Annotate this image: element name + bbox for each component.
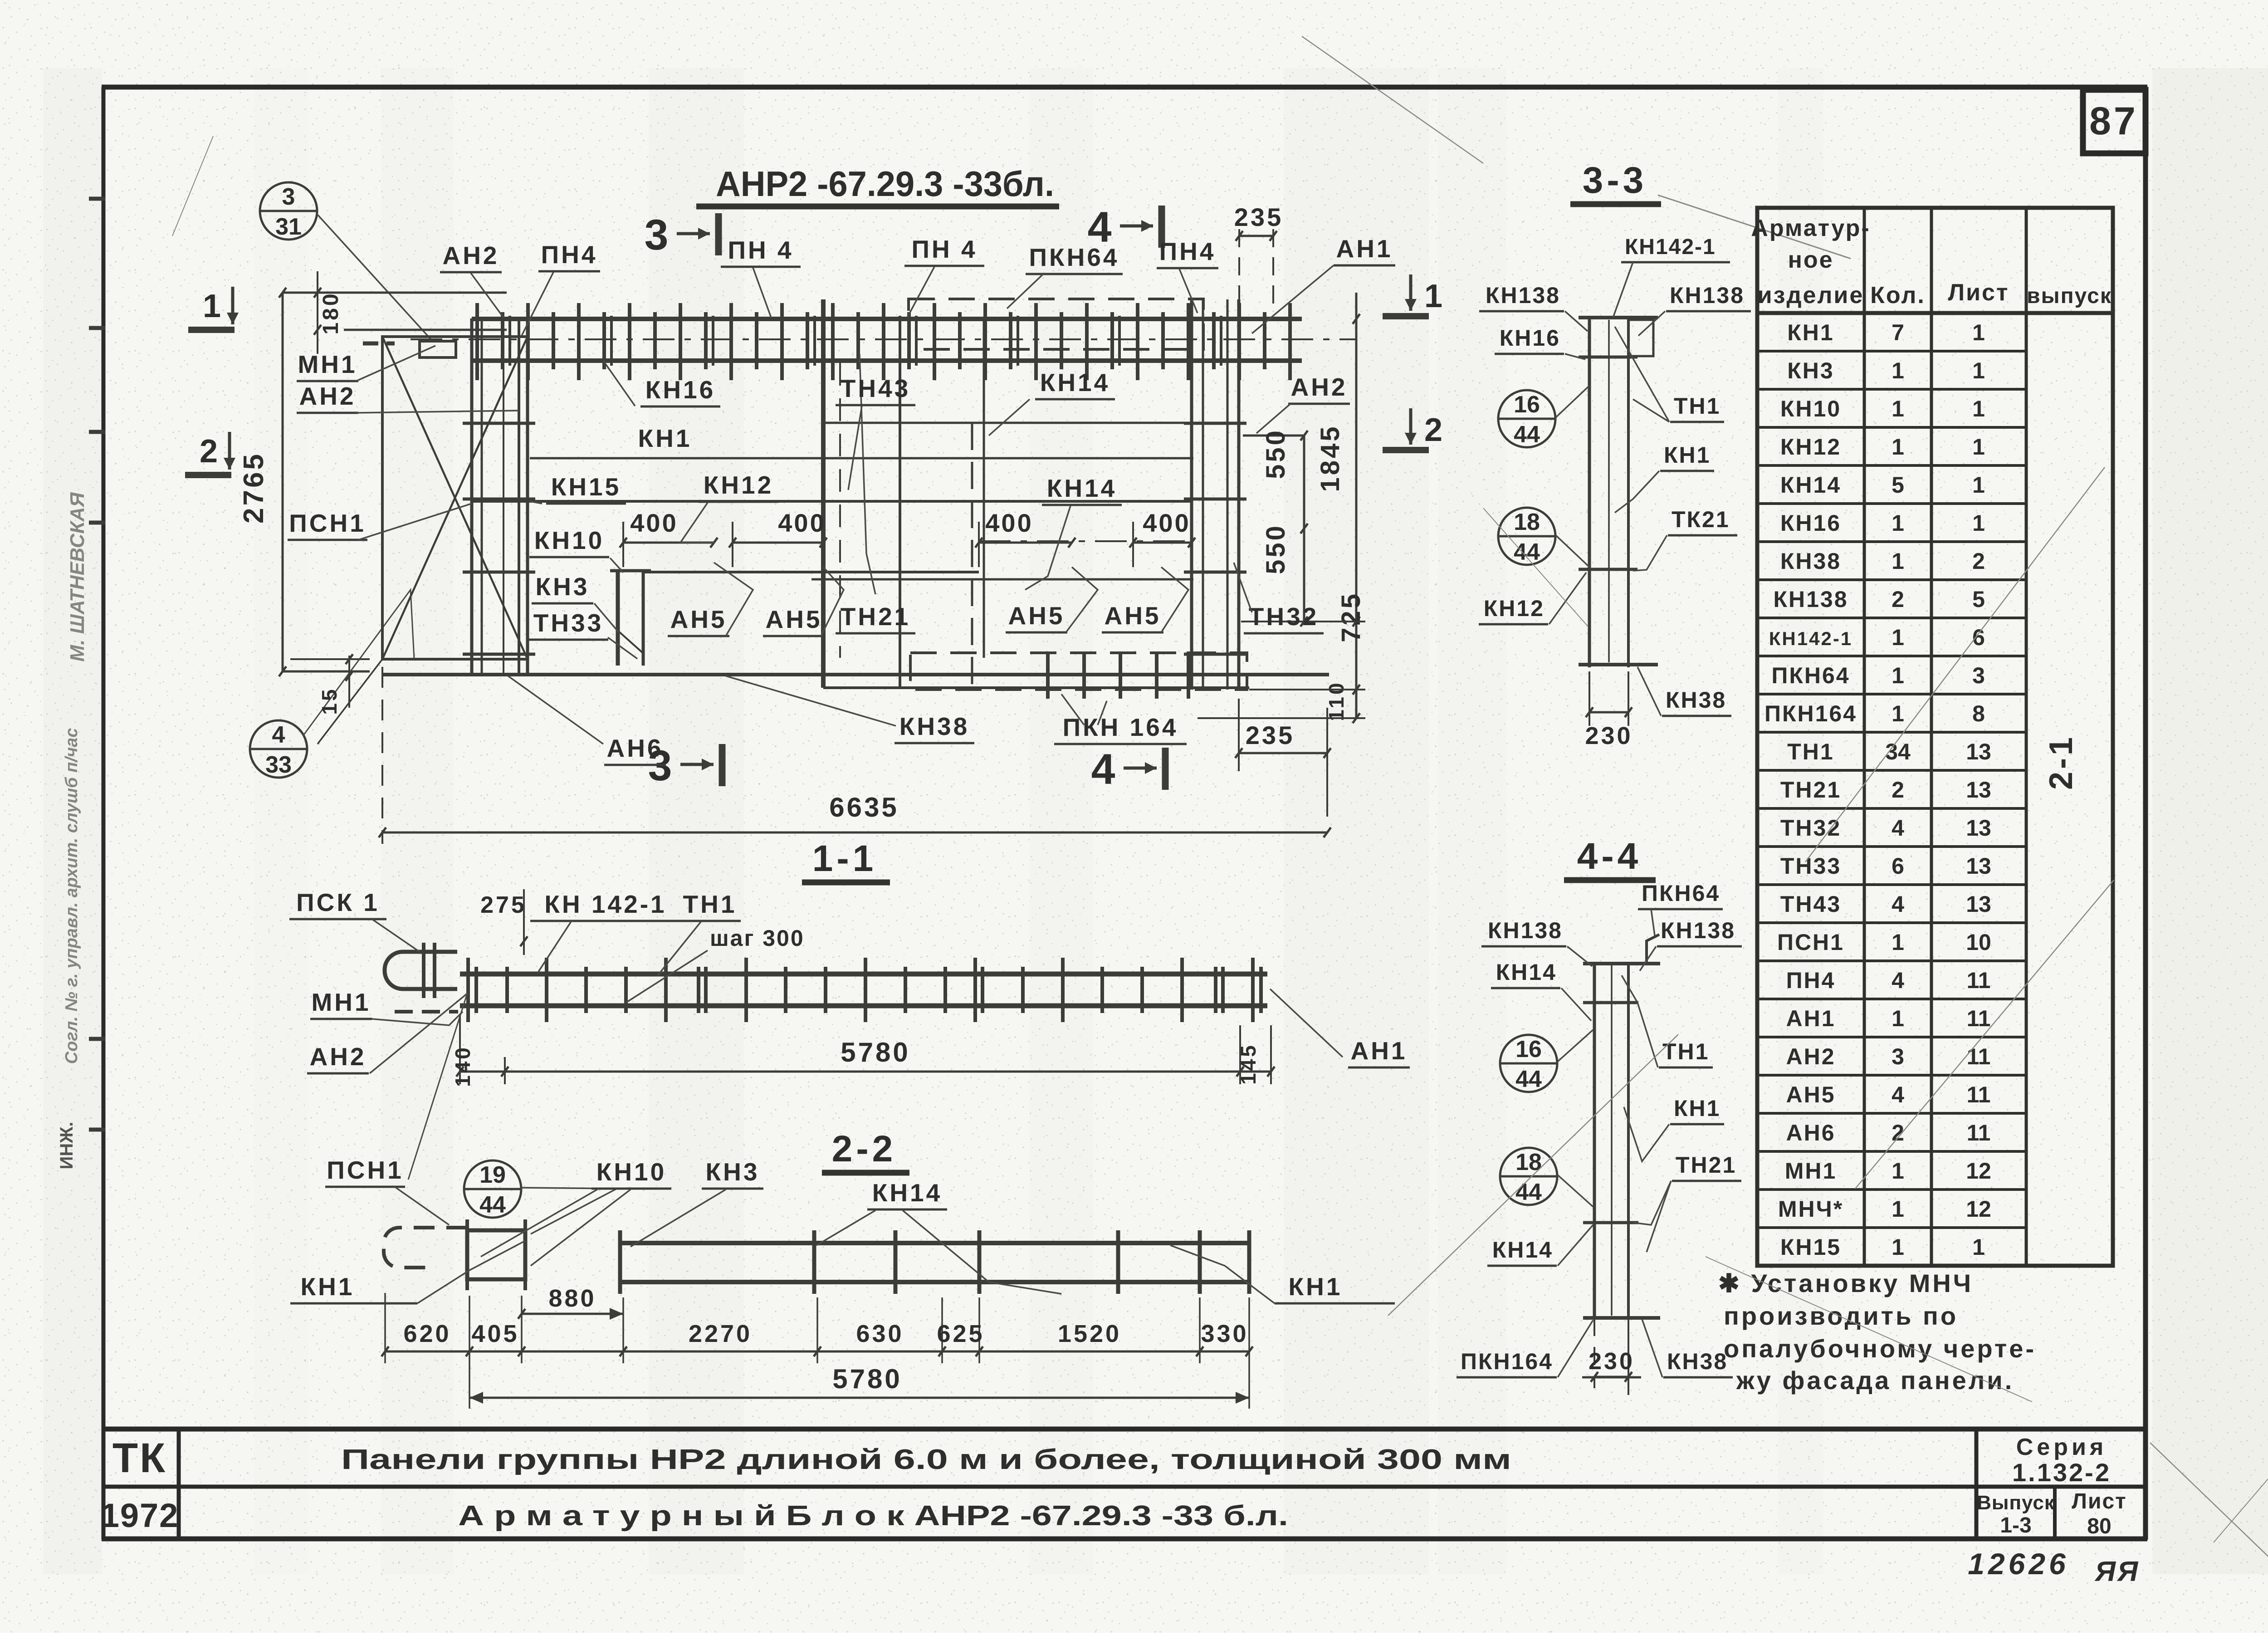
svg-text:87: 87: [2089, 99, 2138, 143]
dim 235 bot line: [1239, 752, 1327, 754]
dim 230 ext a: [1589, 671, 1590, 726]
svg-text:330: 330: [1201, 1320, 1248, 1347]
svg-text:2270: 2270: [689, 1320, 752, 1347]
leader АН2 1-1 b: [408, 994, 467, 1180]
dim 1845 vertical: [1355, 293, 1358, 718]
label dim 230 (4-4): [1582, 1348, 1641, 1377]
svg-text:13: 13: [1966, 815, 1991, 841]
label ТН32 right: [1244, 602, 1324, 633]
svg-text:1: 1: [1892, 1006, 1904, 1031]
label КН1 3-3: [1660, 442, 1714, 471]
КН1 underline L: [290, 1302, 417, 1305]
border fold tick: [89, 1037, 105, 1041]
label КН10 2-2: [591, 1158, 671, 1189]
left column cross tie: [463, 653, 535, 656]
section 3-3 title: [1570, 160, 1661, 204]
dim ext 2-2: [1248, 1297, 1250, 1363]
leader КН10: [610, 558, 623, 573]
svg-text:230: 230: [1589, 1348, 1635, 1375]
label dim 2270 (2-2): [689, 1320, 752, 1347]
svg-text:4: 4: [272, 722, 285, 748]
label АН2 1-1: [307, 1043, 369, 1073]
beam 2-2 bottom chord: [620, 1280, 1249, 1284]
scan band: [1030, 68, 1093, 1574]
dim 230 line (3-3): [1589, 711, 1628, 714]
svg-text:АН6: АН6: [1786, 1120, 1835, 1145]
leader ПКН64 4-4: [1651, 909, 1655, 935]
svg-text:изделие: изделие: [1758, 282, 1864, 308]
label АН2 top: [440, 241, 502, 272]
dim 180 vertical: [317, 271, 318, 354]
scan scratch line: [172, 136, 213, 236]
dim 235 top line: [1239, 235, 1273, 237]
beam 1-1 bottom chord: [460, 1004, 1267, 1008]
dim ext right a: [1241, 621, 1365, 622]
svg-text:КН1: КН1: [1674, 1096, 1721, 1121]
title block frame: [102, 1429, 2147, 1539]
label КН3: [532, 573, 593, 603]
svg-text:400: 400: [985, 509, 1033, 537]
leader КН138 4-4 L: [1567, 946, 1592, 966]
leader 16/44 4-4: [1558, 1030, 1593, 1062]
КН1 underline R: [1275, 1302, 1395, 1305]
svg-text:АН2: АН2: [1786, 1044, 1835, 1069]
leader КН14 2-2 b: [903, 1210, 1061, 1294]
leader КН138 4-4 R: [1640, 946, 1656, 971]
note text: [1718, 1269, 2036, 1395]
svg-text:11: 11: [1967, 1006, 1991, 1031]
left column bar 3: [503, 318, 504, 675]
svg-text:ПКН64: ПКН64: [1642, 881, 1720, 906]
label ПКН164 plan: [1054, 713, 1187, 744]
dim 880 line: [522, 1313, 623, 1315]
leader ТН1 3-3 b: [1633, 399, 1669, 422]
dim chain line: [385, 1351, 1249, 1353]
scan band: [43, 68, 102, 1574]
svg-text:КН138: КН138: [1661, 918, 1735, 943]
leader ПСК1: [372, 919, 420, 952]
label КН1 4-4: [1670, 1096, 1724, 1124]
svg-text:КН14: КН14: [1496, 959, 1557, 985]
scan band: [649, 68, 744, 1574]
scan scratch line: [1706, 1257, 2032, 1402]
section 4-4 title: [1564, 836, 1656, 880]
left column cross tie: [463, 571, 535, 574]
leader КН1 3-3: [1615, 471, 1659, 513]
svg-text:3: 3: [282, 184, 295, 210]
label ТН1 3-3: [1670, 393, 1724, 422]
marker circle 4/33: [250, 720, 307, 778]
section 2-2 title: [822, 1128, 909, 1173]
label АН1 top: [1334, 235, 1395, 265]
svg-text:ПН 4: ПН 4: [728, 236, 793, 264]
label ПКН64 4-4: [1638, 881, 1723, 909]
svg-text:275: 275: [480, 892, 527, 918]
page border top: [102, 85, 2147, 90]
label КН142-1: [1621, 235, 1730, 262]
svg-text:выпуск: выпуск: [2027, 284, 2112, 308]
label КН14 4-4 bot: [1487, 1237, 1557, 1266]
scan band: [381, 68, 454, 1574]
svg-text:АНР2 -67.29.3 -33бл.: АНР2 -67.29.3 -33бл.: [716, 164, 1054, 204]
svg-text:10: 10: [1966, 930, 1991, 955]
svg-text:АН5: АН5: [1104, 602, 1161, 630]
leader ПКН164 plan b: [1098, 701, 1107, 725]
label ПСН1: [288, 509, 367, 540]
band axis dash-dot: [411, 338, 1356, 340]
svg-text:Согл. № г. управл. архит. слу: Согл. № г. управл. архит. слушб п/час: [62, 728, 81, 1064]
dim 275 tick: [523, 889, 525, 955]
label ТН33: [528, 609, 608, 640]
svg-text:145: 145: [1237, 1043, 1260, 1085]
svg-text:13: 13: [1966, 777, 1991, 803]
svg-text:2: 2: [200, 433, 218, 470]
svg-text:АН6: АН6: [606, 734, 663, 762]
label ТН43: [836, 374, 915, 405]
svg-text:Арматур-: Арматур-: [1751, 215, 1870, 241]
svg-text:ТН33: ТН33: [1780, 853, 1841, 879]
scan band: [2152, 68, 2268, 1574]
svg-text:КН10: КН10: [596, 1158, 666, 1186]
label dim 550 b: [1261, 524, 1290, 574]
leader ТК21 3-3: [1633, 535, 1667, 571]
label dim 725: [1336, 592, 1366, 642]
dim ext 180 bottom: [344, 329, 507, 331]
label АН5 a: [668, 605, 729, 636]
svg-text:ИНЖ.: ИНЖ.: [57, 1122, 77, 1170]
svg-text:1: 1: [1892, 663, 1904, 688]
leader КН138 3-3 L: [1565, 311, 1588, 331]
svg-text:2-2: 2-2: [832, 1128, 897, 1170]
svg-text:1: 1: [1892, 434, 1904, 460]
label dim 1520 (2-2): [1058, 1320, 1121, 1347]
left column bar 5: [526, 318, 529, 675]
dim ext 2-2: [521, 1296, 523, 1363]
svg-text:ПКН 164: ПКН 164: [1063, 713, 1178, 741]
label КН38 plan: [894, 712, 974, 743]
label КН14 4-4 top: [1491, 959, 1560, 988]
svg-text:МН1: МН1: [311, 988, 371, 1016]
mid bar dashed pair: [839, 363, 841, 658]
scan scratch line: [1855, 880, 2114, 1189]
svg-text:КН15: КН15: [551, 473, 621, 501]
dim 400: [975, 509, 1075, 567]
svg-text:230: 230: [1585, 722, 1633, 749]
dim ext 2-2: [978, 1297, 980, 1363]
Лист 80: [2072, 1489, 2126, 1538]
section marker 1 left: [188, 287, 239, 330]
dim 5780 line (1-1): [460, 1071, 1271, 1073]
scan scratch line: [1483, 508, 1588, 626]
leader 18/44 4-4: [1558, 1175, 1593, 1207]
label АН1 1-1: [1348, 1037, 1410, 1067]
svg-text:1845: 1845: [1315, 424, 1345, 492]
svg-text:ТН21: ТН21: [1676, 1152, 1736, 1178]
dim 230 ext b: [1628, 671, 1629, 726]
dim 235 bot ext: [1326, 708, 1328, 817]
svg-text:ПН4: ПН4: [1786, 968, 1836, 993]
svg-text:7: 7: [1892, 320, 1904, 345]
leader КН38 4-4: [1642, 1319, 1662, 1377]
leader АН2 1-1: [370, 994, 467, 1073]
svg-text:400: 400: [1143, 509, 1190, 537]
svg-text:1: 1: [1892, 1234, 1904, 1260]
svg-text:400: 400: [778, 509, 826, 537]
right column cross tie: [1184, 422, 1246, 425]
label АН5 b: [763, 605, 825, 636]
band top chord: [472, 317, 1302, 321]
page border bottom (title block bottom): [102, 1537, 2147, 1542]
svg-text:1-3: 1-3: [2000, 1513, 2031, 1537]
svg-text:КН14: КН14: [872, 1179, 942, 1207]
label dim 880: [548, 1285, 596, 1312]
left column bar 4: [518, 318, 520, 675]
leader АН2 right: [1256, 404, 1290, 433]
dim line 2765 vertical: [282, 293, 284, 671]
svg-text:12: 12: [1966, 1196, 1991, 1222]
svg-text:625: 625: [937, 1320, 984, 1347]
svg-text:1: 1: [1892, 358, 1904, 383]
svg-text:18: 18: [1515, 1149, 1542, 1175]
svg-text:4-4: 4-4: [1577, 836, 1642, 877]
dim ext 1-1 a: [459, 1016, 461, 1084]
svg-text:жу фасада панели.: жу фасада панели.: [1736, 1366, 2014, 1395]
svg-text:5780: 5780: [841, 1037, 910, 1067]
leader КН1 4-4: [1624, 1107, 1669, 1161]
margin инж: [57, 1122, 77, 1170]
svg-text:ПСН1: ПСН1: [289, 509, 366, 537]
label dim 15: [318, 687, 341, 715]
leader КН14 4-4 bot: [1558, 1225, 1593, 1266]
svg-text:6635: 6635: [829, 792, 899, 822]
label КН1 2-2 L: [301, 1273, 355, 1301]
label dim 275: [480, 892, 527, 918]
label КН14 top: [1035, 368, 1115, 399]
dim ext right c: [1198, 717, 1365, 719]
label ПН 4 top d: [1157, 237, 1218, 268]
label КН138 4-4 L: [1481, 918, 1566, 946]
plan line h3b: [823, 422, 1192, 424]
left column bar 2: [481, 318, 483, 675]
beam 1-1 left hook ПСК1: [385, 943, 458, 1012]
leader КН142-1: [1613, 262, 1633, 318]
leader КН1 2-2 L: [417, 1241, 525, 1303]
svg-text:ТН43: ТН43: [1780, 891, 1841, 917]
label ПКН164 4-4: [1457, 1349, 1557, 1377]
svg-text:44: 44: [1515, 1179, 1542, 1205]
leader 19/44 2-2: [522, 1188, 617, 1234]
leader ТН21 4-4: [1633, 1181, 1671, 1225]
svg-text:Лист: Лист: [1948, 279, 2009, 306]
svg-text:КН3: КН3: [536, 573, 590, 601]
dim ext bottom2: [290, 658, 370, 660]
svg-text:4: 4: [1091, 745, 1115, 793]
svg-text:5: 5: [1972, 587, 1985, 612]
leader АН6: [508, 676, 603, 744]
leader ПН4 c: [907, 267, 934, 318]
specification table frame: [1757, 208, 2113, 1266]
svg-text:2: 2: [1892, 777, 1904, 803]
leader from circle 4/33: [303, 590, 414, 736]
label dim 235 bottom: [1246, 721, 1295, 749]
beam 2-2 verticals: [620, 1230, 1249, 1294]
dim 230 line (4-4): [1594, 1376, 1628, 1378]
marker circle 16/44 (4-4): [1500, 1035, 1557, 1092]
scan band: [254, 68, 308, 1574]
svg-text:1: 1: [1972, 358, 1985, 383]
svg-text:КН14: КН14: [1780, 472, 1841, 498]
leader МН1 1-1: [372, 1012, 463, 1025]
svg-text:550: 550: [1261, 428, 1290, 479]
svg-text:1: 1: [1892, 930, 1904, 955]
leader ТН1 1-1 a: [658, 922, 701, 975]
svg-text:ТН21: ТН21: [841, 602, 911, 631]
svg-text:405: 405: [471, 1320, 519, 1347]
svg-text:4: 4: [1892, 815, 1904, 841]
dim АН2 line: [1243, 435, 1304, 437]
svg-text:400: 400: [630, 509, 678, 537]
label КН138 3-3 R: [1666, 283, 1751, 311]
svg-text:КН138: КН138: [1486, 283, 1560, 308]
dim 235 ext1: [1238, 229, 1240, 308]
leader АН5 d: [1161, 567, 1188, 632]
label КН16: [640, 376, 720, 406]
svg-text:1520: 1520: [1058, 1320, 1121, 1347]
svg-text:ТН21: ТН21: [1780, 777, 1841, 803]
svg-text:КН1: КН1: [301, 1273, 355, 1301]
svg-text:2: 2: [1424, 412, 1442, 448]
mid bar thick: [821, 299, 826, 688]
leader КН14 mid: [1025, 506, 1070, 590]
bar КН1 line: [530, 457, 1193, 460]
svg-text:1: 1: [1424, 278, 1442, 314]
svg-text:ТН32: ТН32: [1249, 602, 1319, 631]
svg-text:КН38: КН38: [1666, 687, 1726, 713]
svg-text:КН16: КН16: [1780, 510, 1841, 536]
svg-text:ТН1: ТН1: [1787, 739, 1834, 764]
label АН6: [604, 734, 666, 765]
right column cross tie: [1184, 498, 1246, 501]
label dim 230 (3-3): [1585, 722, 1633, 749]
label АН5 d: [1102, 602, 1163, 632]
svg-text:12626: 12626: [1968, 1547, 2069, 1581]
leader 16/44 3-3: [1556, 386, 1589, 417]
leader КН1 2-2 R: [1170, 1245, 1275, 1303]
label ПН4 top a: [538, 240, 600, 271]
scan scratch line: [1805, 467, 2105, 862]
svg-text:1: 1: [203, 288, 221, 324]
svg-text:ТК: ТК: [112, 1435, 167, 1481]
Выпуск 1-3: [1977, 1492, 2055, 1537]
svg-text:МН1: МН1: [1785, 1158, 1837, 1184]
dim 400: [729, 509, 827, 567]
page border left: [102, 87, 106, 1540]
leader ТН1 1-1 b: [626, 950, 708, 1003]
dim 5780 line (2-2): [469, 1397, 1249, 1399]
svg-text:АН5: АН5: [1786, 1082, 1835, 1107]
svg-text:АН1: АН1: [1786, 1006, 1835, 1031]
svg-text:ное: ное: [1788, 247, 1833, 273]
label ТК21 3-3: [1668, 507, 1737, 535]
svg-text:ПКН64: ПКН64: [1029, 243, 1119, 271]
dim 6635 line: [382, 832, 1327, 834]
band vertical ties: [477, 303, 1290, 380]
dim ext right b: [1249, 689, 1365, 690]
svg-text:ТН32: ТН32: [1780, 815, 1841, 841]
leader ТН33: [608, 637, 637, 659]
svg-text:1: 1: [1892, 510, 1904, 536]
label КН38 3-3: [1662, 687, 1731, 716]
dim 5780 ext L: [469, 1363, 470, 1409]
border fold tick: [89, 430, 105, 434]
plan line h6b: [811, 578, 1193, 581]
svg-text:Выпуск: Выпуск: [1977, 1492, 2055, 1514]
plan dashdot line: [979, 540, 1190, 542]
svg-text:ТН1: ТН1: [1674, 393, 1721, 419]
svg-text:1: 1: [1892, 1158, 1904, 1184]
section marker 3 top: [645, 211, 719, 259]
leader from circle 3/31: [317, 214, 431, 339]
svg-text:КН142-1: КН142-1: [1625, 235, 1716, 259]
svg-text:725: 725: [1336, 592, 1366, 642]
svg-text:44: 44: [1514, 421, 1540, 448]
panel left blank area with X brace: [318, 337, 528, 744]
svg-text:1: 1: [1892, 701, 1904, 726]
leader АН2 left: [356, 411, 519, 413]
marker circle 19/44 (2-2): [464, 1160, 521, 1218]
svg-text:235: 235: [1234, 203, 1283, 231]
label КН12 3-3: [1479, 596, 1548, 624]
svg-text:15: 15: [318, 687, 341, 715]
svg-text:80: 80: [2087, 1514, 2111, 1538]
svg-text:2765: 2765: [238, 452, 269, 524]
label ТН21 4-4: [1672, 1152, 1741, 1181]
label dim 405 (2-2): [471, 1320, 519, 1347]
svg-text:МНЧ*: МНЧ*: [1778, 1196, 1843, 1222]
section marker 1 right: [1383, 274, 1442, 316]
leader ПСН1 2-2: [395, 1187, 449, 1225]
marker circle 18/44 (3-3): [1498, 508, 1555, 565]
right column bar 3: [1227, 299, 1229, 690]
svg-text:31: 31: [275, 214, 302, 240]
svg-text:180: 180: [319, 291, 343, 334]
svg-text:1972: 1972: [101, 1497, 179, 1534]
svg-text:КН15: КН15: [1780, 1234, 1841, 1260]
label dim 5780 (1-1): [841, 1037, 910, 1067]
section marker 2 left: [185, 432, 235, 475]
dim 235 ext2: [1272, 229, 1274, 308]
svg-text:3: 3: [1972, 663, 1985, 688]
label МН1: [297, 350, 358, 381]
page border right: [2143, 87, 2148, 1540]
svg-text:ПСН1: ПСН1: [327, 1156, 404, 1184]
svg-text:1: 1: [1972, 1234, 1985, 1260]
svg-text:1: 1: [1892, 625, 1904, 650]
svg-text:А р м а т у р н ы й Б л о: А р м а т у р н ы й Б л о к АНР2 -67.29.…: [458, 1500, 1288, 1532]
plan bottom line 2: [823, 686, 1249, 689]
svg-text:КН10: КН10: [534, 526, 604, 554]
label КН142-1 1-1: [530, 890, 681, 921]
svg-text:Серия: Серия: [2016, 1434, 2107, 1460]
leader МН1: [356, 346, 435, 381]
scan band: [1778, 68, 1823, 1574]
svg-text:Лист: Лист: [2072, 1489, 2126, 1513]
svg-text:М. ШАТНЕВСКАЯ: М. ШАТНЕВСКАЯ: [66, 492, 88, 662]
section marker 4 bottom: [1091, 745, 1165, 793]
svg-text:13: 13: [1966, 853, 1991, 879]
dashed outline ПКН64 top: [909, 299, 1203, 349]
leader ПКН164 4-4: [1558, 1320, 1593, 1377]
